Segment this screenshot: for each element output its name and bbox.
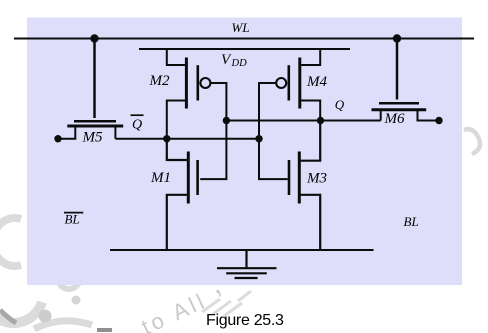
svg-text:DD: DD [231,58,248,69]
svg-text:M3: M3 [306,171,327,187]
wire M2/M1 gates to node Q (cross couple left) [200,83,226,179]
svg-text:M5: M5 [82,130,103,146]
svg-text:M4: M4 [306,74,327,90]
svg-text:WL: WL [232,20,250,35]
transistor M5 access [58,121,123,138]
node BLB terminal [54,135,61,142]
node WL to M6 gate junction [393,34,401,42]
wire M6 gate to WL [396,39,399,100]
label VDD [221,52,247,69]
SRAM cell background box [27,18,462,286]
wire node QB line [115,138,259,140]
wire M4/M3 gates to node QB (cross couple right) [259,83,288,179]
node QB at M1 M2 drains [163,135,170,142]
transistor M3 NMOS [289,121,320,251]
svg-text:to All: to All [138,288,211,333]
node WL to M5 gate junction [90,34,98,42]
svg-text:Figure 25.3: Figure 25.3 [206,312,284,329]
svg-text:M2: M2 [149,73,170,89]
svg-text:BL: BL [404,214,419,229]
node QB tap to M3 M4 gates [255,135,262,142]
node Q at M3 M4 drains [317,117,324,124]
node BL terminal [435,117,442,124]
transistor M6 access [372,103,440,120]
svg-text:M1: M1 [150,170,171,186]
wire M5 gate to WL [93,39,96,119]
wire WL word line [14,38,474,40]
ground symbol [217,250,277,278]
label BLB bit line bar [64,211,83,226]
wire node Q line [226,120,380,122]
wire VDD supply rail [139,48,350,50]
svg-text:M6: M6 [384,111,405,127]
svg-text:Q: Q [335,97,345,112]
node Q tap to M1 M2 gates [223,117,230,124]
label QB [131,115,144,132]
transistor M1 NMOS [167,139,198,250]
transistor M2 PMOS [167,49,211,139]
transistor M4 PMOS [276,49,320,121]
wire ground rail [110,249,374,251]
svg-text:BL: BL [65,211,80,226]
svg-text:Q: Q [132,118,142,133]
